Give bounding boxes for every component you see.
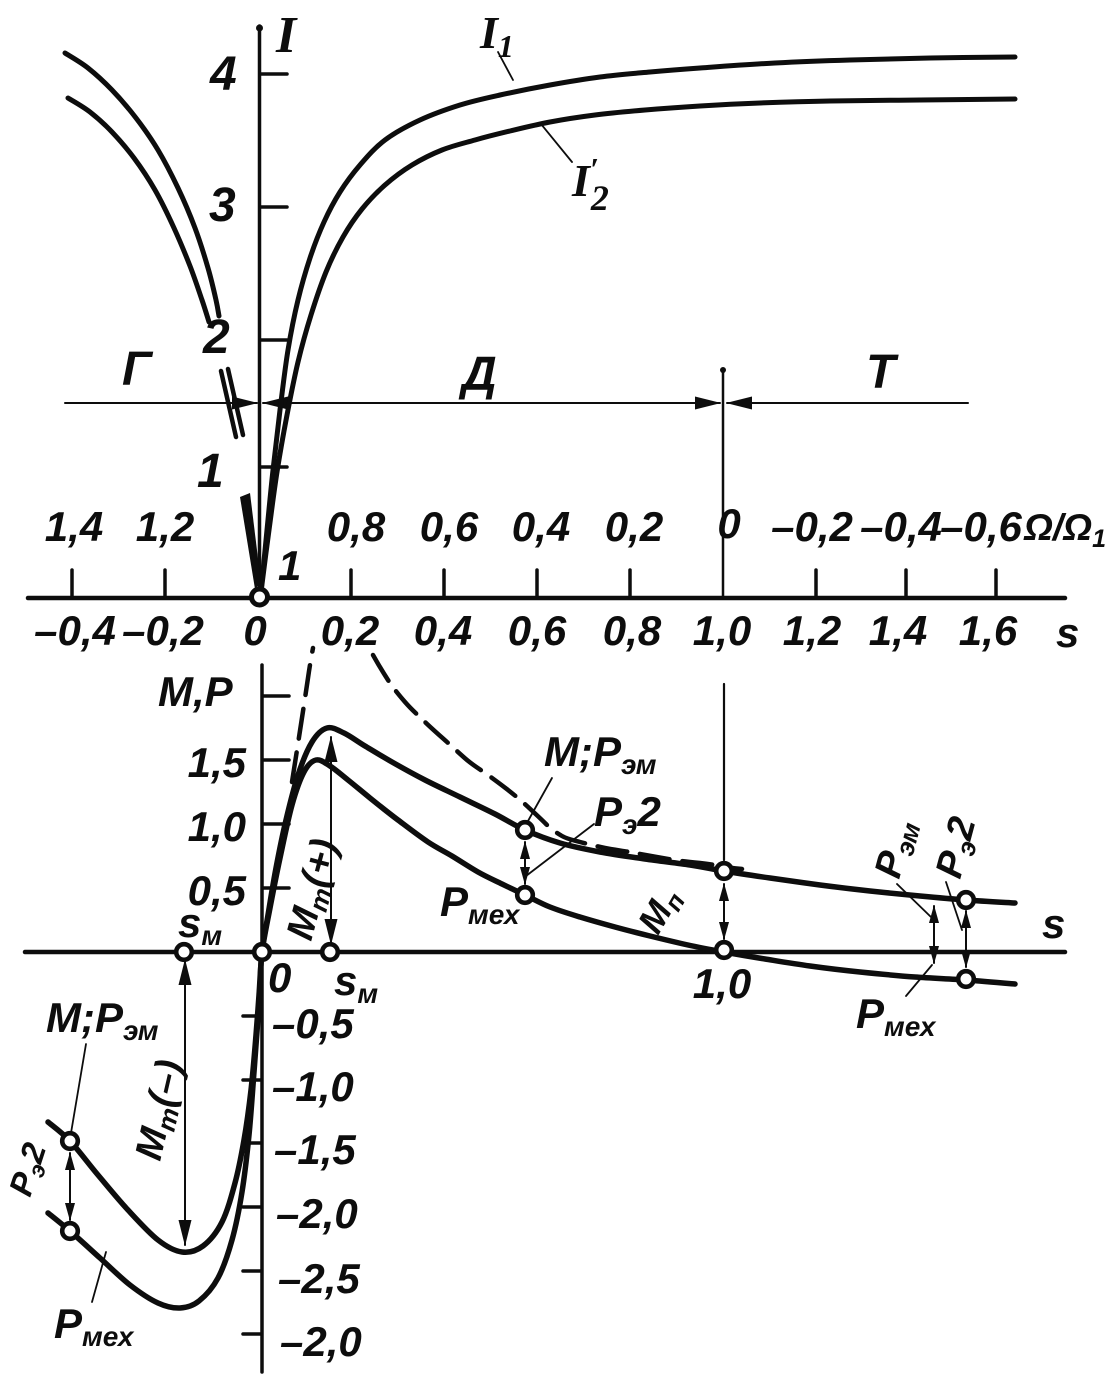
marker origin top chart (252, 589, 268, 605)
svg-text:4: 4 (209, 48, 237, 101)
svg-text:Pэм: Pэм (867, 815, 927, 883)
svg-text:0,6: 0,6 (508, 607, 567, 654)
svg-text:0,2: 0,2 (321, 607, 379, 654)
svg-text:Г: Г (122, 343, 154, 396)
svg-text:I1: I1 (479, 7, 514, 64)
y-axis top chart (I axis) (256, 25, 263, 599)
leader line I2' label (541, 124, 572, 162)
svg-text:–2,5: –2,5 (278, 1255, 360, 1302)
leader Pe2 right (946, 882, 962, 930)
svg-text:I: I (275, 7, 298, 64)
svg-text:1,4: 1,4 (45, 503, 103, 550)
svg-text:Pэ2: Pэ2 (928, 813, 988, 884)
dashed auxiliary curve left steep segment (292, 648, 313, 782)
svg-text:–0,4: –0,4 (34, 607, 116, 654)
arrow Pe2 left (69, 1153, 71, 1220)
y tick -0.5 (243, 1014, 261, 1018)
leader Pe2 mid (526, 824, 594, 876)
y tick 0.5 (263, 886, 289, 890)
region dimension line G segment (65, 402, 257, 404)
leader Pmech negative (92, 1252, 106, 1302)
x-axis bottom chart (s axis) (25, 950, 1065, 955)
leader line I1 label (498, 52, 513, 80)
svg-text:1,5: 1,5 (188, 739, 247, 786)
svg-text:sм: sм (334, 957, 378, 1009)
svg-text:–1,5: –1,5 (274, 1126, 356, 1173)
y tick 1.5 (263, 758, 289, 762)
arrow Pe2 right (965, 911, 967, 967)
svg-text:–0,2: –0,2 (771, 503, 853, 550)
marker P curve right (958, 971, 974, 987)
svg-text:Pмех: Pмех (54, 1300, 135, 1352)
svg-text:0: 0 (717, 500, 740, 547)
svg-text:0,6: 0,6 (420, 503, 479, 550)
x-axis shared (s axis of top chart) (28, 596, 1065, 601)
svg-text:1,0: 1,0 (693, 960, 751, 1007)
svg-text:M;Pэм: M;Pэм (544, 728, 657, 780)
svg-text:0,8: 0,8 (327, 503, 386, 550)
svg-text:0,4: 0,4 (512, 503, 570, 550)
svg-text:–1,0: –1,0 (272, 1063, 354, 1110)
svg-text:0,8: 0,8 (603, 607, 662, 654)
svg-text:–2,0: –2,0 (280, 1318, 362, 1365)
svg-text:Т: Т (866, 346, 899, 399)
svg-text:1: 1 (197, 445, 224, 498)
marker M curve right (958, 892, 974, 908)
curve Pmech (mechanical power) (48, 760, 1015, 1308)
marker s_m positive (322, 944, 338, 960)
svg-text:1,2: 1,2 (136, 503, 194, 550)
svg-text:–2,0: –2,0 (276, 1190, 358, 1237)
s scale labels (34, 607, 1018, 654)
svg-text:1,0: 1,0 (693, 607, 751, 654)
svg-text:–0,4: –0,4 (860, 503, 942, 550)
svg-text:I′2: I′2 (571, 151, 609, 218)
marker M curve at s=1 (716, 863, 732, 879)
leader Pem right (897, 884, 932, 918)
marker P curve mid (517, 887, 533, 903)
svg-text:–0,6: –0,6 (940, 503, 1022, 550)
y-axis bottom chart (M,P axis) (260, 665, 264, 1372)
omega scale labels (45, 500, 1023, 550)
arrow Mp (starting torque) (723, 884, 725, 939)
leader Pmech right (906, 965, 932, 996)
curve I2' right branch (261, 99, 1015, 592)
leader M;Pem mid (528, 778, 552, 821)
merged steep stroke into origin (240, 493, 261, 589)
y tick I=1 (261, 465, 287, 469)
svg-text:Ω/Ω1: Ω/Ω1 (1023, 507, 1106, 553)
vertical reference line at s=1.0 top chart (720, 367, 726, 597)
region dimension line D segment (263, 402, 720, 404)
svg-text:Д: Д (458, 348, 497, 401)
svg-text:1,4: 1,4 (869, 607, 927, 654)
svg-text:–0,2: –0,2 (122, 607, 204, 654)
svg-text:0,4: 0,4 (414, 607, 472, 654)
marker M curve negative left (62, 1133, 78, 1149)
svg-text:s: s (1042, 900, 1065, 947)
svg-text:0,2: 0,2 (605, 503, 663, 550)
y tick -2.0 (243, 1205, 261, 1209)
svg-text:3: 3 (209, 179, 236, 232)
leader M;Pem negative (71, 1044, 86, 1133)
curve M;Pem (torque / electromagnetic power) (48, 728, 1015, 1253)
marker origin bottom chart (254, 944, 270, 960)
svg-text:Pэ2: Pэ2 (1, 1138, 57, 1202)
y tick I=3 (261, 205, 287, 209)
arrow Mm(-) (184, 960, 186, 1245)
svg-text:–0,5: –0,5 (272, 1000, 354, 1047)
dashed auxiliary curve right hyperbola segment (373, 655, 742, 869)
svg-text:1,2: 1,2 (783, 607, 841, 654)
svg-text:1: 1 (278, 542, 301, 589)
svg-text:1,6: 1,6 (959, 607, 1018, 654)
curve I1 right branch (261, 57, 1015, 592)
svg-text:M;Pэм: M;Pэм (46, 994, 159, 1046)
y tick -1.0 (243, 1078, 261, 1082)
curve I2' left branch (68, 98, 209, 322)
y tick I=2 (261, 338, 287, 342)
svg-text:1,0: 1,0 (188, 803, 246, 850)
vertical reference line at s=1.0 bottom chart (723, 684, 725, 860)
svg-text:Mm(+): Mm(+) (279, 835, 350, 946)
y tick -1.5 (243, 1141, 261, 1145)
y tick -2.5 (243, 1269, 261, 1273)
svg-text:0: 0 (243, 607, 266, 654)
marker s_m negative (176, 944, 192, 960)
x ticks top axis (72, 570, 996, 597)
y tick I=4 (261, 72, 287, 76)
y tick 1.0 (263, 822, 289, 826)
svg-text:Pмех: Pмех (856, 990, 937, 1042)
marker axis at s=1 (716, 942, 732, 958)
y tick 2.0 (263, 694, 289, 698)
marker P curve negative left (62, 1223, 78, 1239)
svg-text:M,P: M,P (158, 668, 234, 715)
y tick -3.0 (243, 1332, 261, 1336)
break segment pair on left branches (221, 369, 243, 437)
arrow Pem right (933, 906, 935, 963)
arrow Pe2 mid (524, 842, 526, 884)
svg-text:s: s (1056, 609, 1079, 656)
region dimension line T segment (727, 402, 968, 404)
marker M curve mid (517, 822, 533, 838)
svg-text:0: 0 (268, 954, 291, 1001)
svg-text:2: 2 (202, 311, 230, 364)
svg-text:Pэ2: Pэ2 (594, 788, 661, 840)
curve I1 left branch (65, 53, 219, 316)
arrow Mm(+) (330, 737, 332, 944)
